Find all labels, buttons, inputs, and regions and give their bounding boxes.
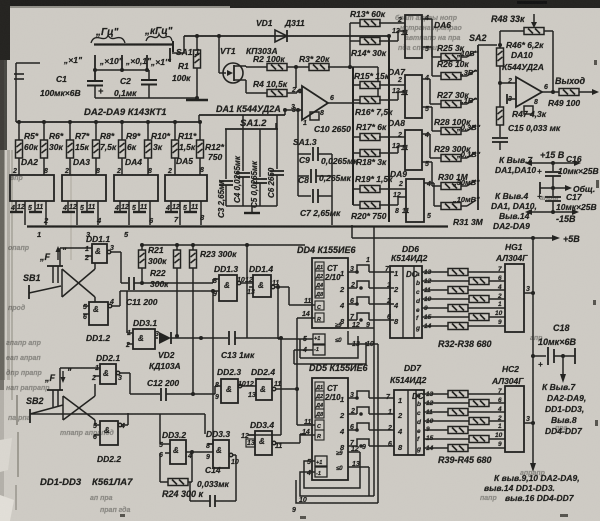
capacitor C3 [225, 129, 227, 179]
DA3 bottom pins and grounds [67, 201, 69, 211]
wire DA7 out pin4 [422, 78, 430, 80]
DA5 bottom pins and grounds [170, 201, 172, 211]
diode VD2 [155, 337, 158, 339]
decoder DD6 body [390, 266, 422, 338]
capacitor C14 [235, 455, 237, 501]
resistor R12 [199, 122, 201, 140]
scan dark top edge [0, 0, 600, 6]
resistor R41 [448, 409, 468, 416]
counter DD4 body [312, 258, 348, 328]
wire DD1.1 input from switch [60, 247, 85, 249]
resistor R44 [469, 436, 489, 443]
gate DD2.3 [221, 379, 238, 403]
power -15V node [531, 211, 573, 213]
label HC2 pins [495, 388, 503, 448]
wire DD4 +1 input [278, 338, 313, 340]
gate DD3.2 [170, 440, 186, 464]
resistor R1 [196, 36, 198, 50]
capacitor C4 [242, 115, 244, 171]
faint vertical scan streaks [11, 150, 13, 400]
resistor R2 [267, 64, 287, 71]
analog switch DA6 [405, 15, 422, 58]
diode VD1 [275, 30, 287, 42]
counter DD5 body [312, 378, 348, 480]
resistor R29 [441, 155, 461, 162]
common rail arrow [540, 187, 566, 189]
DD4 -1 pin box [313, 345, 325, 355]
DD4 output wires with jogs [348, 271, 357, 273]
DD5 output wires with jogs [348, 397, 357, 399]
capacitor C17 [552, 188, 554, 196]
wire latch2 cross [63, 396, 95, 420]
wire DA input bus [388, 36, 390, 222]
power +5V rail [351, 225, 353, 238]
capacitor C6 [276, 115, 278, 169]
capacitor C2 [141, 79, 157, 81]
wire DD3.4 out to DD5 [299, 434, 301, 443]
resistor R43 [448, 427, 468, 434]
capacitor C12 [160, 388, 162, 401]
scan dark left edge [0, 0, 7, 150]
wire control bus [27, 225, 448, 227]
op-amp U DA1 [302, 86, 328, 120]
resistor R10 [147, 122, 149, 140]
label DD6 outputs [415, 271, 421, 332]
wire latch cross [62, 269, 95, 297]
wire into DD1.3 pin8 [212, 279, 214, 283]
resistor R20 [353, 204, 361, 206]
resistor R11 [174, 122, 176, 140]
capacitor C16 [552, 163, 554, 171]
wire DD2.4 out node [295, 387, 299, 391]
wire left feedback [15, 63, 17, 122]
decoder DD6 output wires [422, 271, 448, 273]
resistor R33 [469, 278, 489, 285]
wire C1C2 bottom [95, 97, 197, 99]
wire R46 to inverting input [499, 66, 501, 107]
wire input rail [16, 121, 200, 123]
DD5 R pin box [315, 430, 324, 440]
node rail dots [17, 120, 202, 124]
wire DD5 R input [300, 434, 315, 436]
resistor R5 [18, 122, 20, 140]
resistor R14 [350, 40, 361, 42]
wire +5V feed vertical [373, 226, 375, 328]
switch SA2 common [477, 45, 479, 210]
analog switch DA2 [10, 175, 54, 201]
wire DD2.1 out to C12 [129, 373, 131, 394]
wires resistors to HC2 [468, 393, 505, 395]
wire DA8 out pin4 [422, 133, 430, 135]
capacitor C13 [228, 331, 230, 345]
wire VD2 line to bus [280, 338, 282, 435]
resistor R40 [469, 400, 489, 407]
resistor R19 [353, 188, 361, 190]
resistor R49 output [559, 89, 579, 96]
resistor R21 [141, 245, 143, 250]
resistor R7 [69, 122, 71, 140]
wire switch drops [94, 55, 96, 81]
wire caps right common [331, 154, 333, 225]
switch arc line [94, 43, 173, 45]
resistor R3 feedback [309, 64, 329, 71]
DA4 bottom pins and grounds [119, 201, 121, 211]
DD4 data pin boxes [315, 262, 324, 298]
switch SA1.3 column [297, 110, 299, 196]
resistor R36 [448, 305, 468, 312]
potentiometer R48 [500, 30, 524, 32]
resistor R18 [353, 152, 361, 154]
wire DA8 out pin5 [422, 161, 432, 163]
wire DD1.4 out to counter clock [288, 287, 290, 305]
analog switch DA7 [405, 75, 422, 118]
resistor R35 [469, 296, 489, 303]
gate DD1.4 [253, 275, 271, 297]
scan specks right edge [120, 1, 599, 519]
transistor Q VT1 [223, 63, 243, 83]
label DD4 cells [314, 265, 324, 353]
wire DA9 out pin4 [424, 182, 434, 184]
analog switch DA9 [406, 179, 424, 222]
switch SB2 [47, 389, 63, 391]
capacitor C11 [128, 277, 130, 290]
wire DD4 clock input [289, 304, 315, 306]
wire R2R4 to opamp [287, 66, 310, 68]
capacitor C8 [298, 175, 309, 177]
node main line [387, 34, 391, 38]
DD4 carry loops [300, 336, 358, 358]
DD5 +1 pin box [315, 456, 327, 466]
resistor R25 [441, 54, 461, 61]
wire DD5 +1 loop [304, 452, 360, 488]
capacitor C5 [259, 129, 261, 177]
label HG1 pins [495, 266, 503, 326]
DD5 -1 pin box [315, 467, 327, 477]
DD4 R pin box [315, 313, 324, 322]
analog switch DA4 [114, 175, 158, 201]
resistor R9 [121, 122, 123, 140]
brace kHz [146, 34, 172, 41]
gate DD1.1 [92, 244, 107, 263]
DD4 C pin box [315, 301, 324, 310]
power +15V node [531, 162, 575, 164]
resistor R16 [353, 99, 361, 101]
gate DD2.1 [100, 364, 116, 384]
wires resistors to HG1 [468, 271, 505, 273]
capacitor C18 [533, 355, 546, 357]
resistor R26 [441, 73, 461, 80]
decoder DD7 output wires [424, 393, 448, 395]
op-amp U DA10 [516, 77, 542, 107]
ground [196, 68, 198, 99]
resistor R31 [441, 203, 461, 210]
power rail down [532, 238, 534, 464]
wire DA6 out pin4 [422, 18, 432, 20]
gate DD3.3 [213, 440, 229, 468]
node [93, 68, 97, 72]
wire ladder left bus [349, 23, 351, 67]
resistor R6 [43, 122, 45, 140]
white tear bottom left [0, 438, 12, 472]
resistor R17 [353, 136, 361, 138]
resistor R24 [159, 453, 161, 482]
display HC2 [505, 386, 524, 452]
wire DD2.1 input [60, 367, 94, 369]
gate DD1.2 [89, 302, 108, 325]
gate DD2.4 [256, 379, 272, 400]
capacitor C7 [298, 195, 311, 197]
gate DD3.4 [255, 431, 272, 455]
label DD5 cells [315, 385, 324, 477]
brace Hz [91, 35, 125, 43]
resistor R47 [497, 107, 504, 125]
display HG1 [505, 264, 524, 332]
DA2 bottom pins and grounds [15, 201, 17, 211]
resistor R30 [441, 183, 461, 190]
switch SA1.2 lower contact line [225, 128, 278, 130]
resistor R42 [469, 418, 489, 425]
wire DA6 out pin5 [422, 46, 432, 48]
wire caps common [226, 205, 277, 207]
analog switch DA8 [405, 130, 422, 170]
DD5 C pin box [315, 420, 324, 430]
resistor R28 [441, 128, 461, 135]
DD5 data pin boxes [315, 382, 324, 418]
resistor R32 [448, 269, 468, 276]
wire DD5 clock input [297, 424, 315, 426]
wire DD1.2 out up to cross [119, 291, 121, 306]
gate DD3.1 [133, 329, 155, 349]
wire DD1.2 out to DD1.3 pin9 [120, 290, 219, 292]
wire bottom return loop [296, 480, 378, 503]
wire DD1.1 out to C11 [120, 252, 122, 283]
wire DA7 out pin5 [422, 106, 432, 108]
resistor R34 [448, 287, 468, 294]
wire pullup rail [142, 244, 305, 246]
resistor R27 [441, 101, 461, 108]
wire DD4 carry out 12 [348, 327, 374, 329]
capacitor C9 [298, 153, 311, 155]
resistor R4 [267, 90, 287, 97]
label DD7 outputs [416, 392, 422, 453]
resistor R13 [350, 22, 361, 24]
resistor R46 [497, 48, 504, 66]
gate DD1.3 [219, 275, 237, 301]
resistor R22 [176, 245, 178, 250]
resistor R39 [448, 391, 468, 398]
wire DD4 -1 input [294, 349, 313, 351]
wire DD4 R input [297, 317, 315, 319]
analog switch DA3 [62, 175, 106, 201]
DD4 +1 pin box [313, 334, 325, 344]
wire DD4 +1 loop stub [299, 339, 301, 358]
resistor R37 [469, 314, 489, 321]
resistor R23 [192, 245, 194, 250]
resistor R8 [95, 122, 97, 140]
switch SA1.2 top line [199, 114, 285, 116]
resistor R45 [448, 445, 468, 452]
wire DD5 -1 loop [300, 472, 374, 496]
resistor R15 [353, 84, 361, 86]
wire main top [184, 35, 389, 37]
wire DD4 borrow out 13 [348, 331, 378, 344]
resistor R38 [448, 323, 468, 330]
capacitor C15 [499, 125, 501, 137]
wire latch2 to DD3.2 [30, 413, 205, 415]
capacitor C1 [87, 80, 103, 82]
gate DD2.2 [100, 421, 118, 445]
wire to DD3.3 [212, 291, 214, 444]
decoder DD7 body [394, 390, 424, 455]
analog switch DA5 [165, 175, 207, 201]
film grain [0, 0, 1, 1]
switch SB1 [47, 265, 63, 267]
